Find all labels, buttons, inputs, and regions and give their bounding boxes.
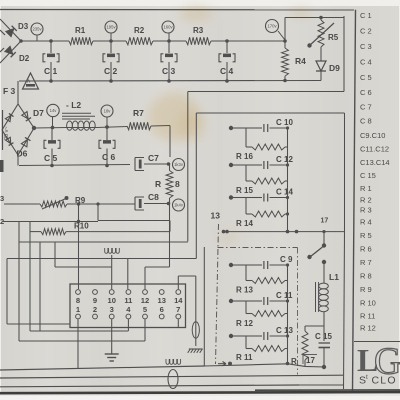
svg-text:1k4v: 1k4v (174, 203, 184, 208)
wire: bundle x55 connects pin10 column (55, 242, 112, 267)
wire: lower chain right bus (286, 265, 290, 365)
wire: middle ground rail (19, 165, 130, 166)
capacitor C4 (219, 39, 235, 83)
svg-text:- L2: - L2 (66, 100, 81, 110)
warning triangle / fuse symbol (23, 73, 39, 89)
wire: top rail (21, 40, 285, 42)
svg-text:17: 17 (306, 356, 315, 365)
svg-text:R 15: R 15 (236, 186, 253, 195)
diode D7 (22, 108, 44, 121)
svg-text:R 10: R 10 (360, 299, 376, 308)
svg-text:C 6: C 6 (102, 152, 116, 162)
resistor R4 (282, 48, 307, 76)
svg-text:10: 10 (107, 296, 115, 305)
svg-text:C11.C12: C11.C12 (360, 145, 389, 154)
svg-text:C 15: C 15 (315, 332, 332, 341)
test point 235v (31, 23, 43, 41)
svg-text:C 11: C 11 (276, 291, 293, 300)
wire: node to R5/D9 branch (283, 16, 344, 92)
wire: bundle x19 to pin5 (19, 222, 145, 342)
wire: bridge2 output rail (32, 126, 67, 130)
svg-text:C7: C7 (148, 153, 159, 163)
svg-text:C 2: C 2 (104, 66, 118, 76)
logo LG (357, 341, 400, 383)
wire: pin12 route (145, 267, 170, 289)
svg-text:S: S (359, 375, 366, 387)
capacitor C11 / resistor R12 pair (229, 291, 293, 328)
capacitor C7 (135, 153, 168, 171)
wire: top section lower rail (19, 80, 321, 83)
uuu marks above bottom oval (166, 359, 181, 364)
svg-text:R 12: R 12 (236, 319, 253, 328)
wire: R9 to C8 node (67, 204, 170, 221)
svg-text:R4: R4 (295, 56, 306, 66)
switch wafer dash-dot boundary (216, 224, 298, 375)
wire: x169 column (169, 198, 171, 267)
wire: bundle x30 to pin4 (30, 222, 128, 332)
svg-text:14v: 14v (50, 108, 58, 113)
wire: pin3 to earth ground (111, 319, 113, 348)
capacitor C8 (135, 192, 168, 210)
svg-text:C 10: C 10 (276, 118, 293, 127)
svg-text:2: 2 (93, 305, 97, 314)
diode bridge2 left diodes (5, 113, 13, 145)
svg-text:R 2: R 2 (360, 196, 372, 205)
wire: pin14 route (178, 276, 196, 346)
svg-text:8: 8 (175, 179, 180, 189)
trimmer R9 (40, 196, 86, 209)
wire: pin1 down to bottom rail (77, 319, 79, 369)
capacitor C3 (161, 41, 177, 83)
capacitor C14 / resistor R14 pair (229, 188, 294, 229)
capacitor C9 / resistor R13 pair (229, 255, 293, 295)
svg-text:C 14: C 14 (276, 188, 293, 197)
svg-text:9: 9 (93, 296, 97, 305)
node 13 wire (211, 211, 346, 234)
wire: L2 to C6 node (97, 125, 127, 129)
svg-text:C 4: C 4 (360, 58, 372, 67)
resistor R7 (127, 108, 151, 130)
wire: switch section ground rail (205, 364, 326, 367)
svg-text:CLO: CLO (372, 375, 397, 387)
svg-text:C 3: C 3 (162, 66, 176, 76)
svg-text:R 14: R 14 (236, 219, 253, 228)
wire: horizontal y91 (188, 91, 344, 93)
resistor R17 (291, 326, 324, 367)
potentiometer R5 (307, 18, 338, 48)
svg-text:160v: 160v (163, 25, 173, 30)
svg-text:13: 13 (157, 296, 165, 305)
resistor R3 (186, 26, 211, 45)
chassis ground below pin14 route (188, 349, 203, 353)
svg-text:R7: R7 (133, 108, 144, 118)
svg-text:D9: D9 (329, 63, 340, 73)
logo text St CLO (359, 374, 397, 387)
svg-text:R 1: R 1 (360, 184, 372, 193)
wire: long vertical x188 (187, 92, 189, 242)
svg-text:F 3: F 3 (3, 86, 16, 96)
svg-text:L1: L1 (329, 272, 339, 282)
svg-text:R 8: R 8 (360, 272, 372, 281)
capacitor C1 (43, 39, 59, 83)
wire: horizontal y113 (196, 112, 344, 114)
connector block outline (70, 284, 186, 328)
parts list column (360, 11, 390, 333)
svg-text:R3: R3 (193, 26, 204, 35)
node: bridge1 output (19, 39, 23, 43)
test point 14v (47, 104, 59, 129)
resistor R1 (69, 26, 93, 45)
rotary switch S1 (307, 230, 326, 264)
earth ground (105, 348, 119, 361)
svg-text:C 5: C 5 (44, 153, 58, 163)
svg-text:C 4: C 4 (220, 66, 234, 76)
wire: bottom bus 2 (0, 375, 343, 378)
svg-text:C 9: C 9 (280, 255, 293, 264)
wire: R7 to C7 node (151, 126, 170, 158)
svg-text:20 v~: 20 v~ (4, 126, 10, 140)
bottom connector oval (168, 370, 178, 389)
diode bridge rectifier arm D2 (0, 41, 30, 63)
zener diode D9 (316, 47, 340, 81)
label F3 (3, 86, 16, 96)
capacitor C15 (315, 332, 332, 367)
inductor L2 (62, 100, 97, 130)
wire: bridge2 bottom to ground rail (17, 155, 19, 166)
wire: C8 left lead (96, 202, 135, 205)
connector pins bottom row 1-7 (76, 305, 181, 319)
test point 1k3v (167, 159, 185, 171)
svg-text:8: 8 (76, 296, 80, 305)
resistor R10 (41, 222, 89, 235)
capacitor C6 (99, 127, 116, 167)
label 17 at switch (321, 218, 329, 225)
svg-text:R 4: R 4 (360, 218, 372, 227)
svg-text:R1: R1 (75, 26, 86, 35)
inductor L1 (316, 264, 340, 312)
wire: vertical x196 (195, 113, 197, 259)
terminal 2 (0, 217, 98, 226)
svg-text:18v: 18v (104, 109, 112, 114)
test point 1k4v (167, 199, 185, 211)
wire: bundle y242 horizontal (19, 241, 188, 243)
test point 160v (162, 21, 174, 43)
svg-text:R 11: R 11 (236, 353, 253, 362)
wire: upper chain right bus (286, 128, 289, 232)
svg-text:R 9: R 9 (360, 285, 372, 294)
wire: bundle left vertical x7 (7, 259, 70, 325)
resistor R2 (126, 26, 153, 45)
node: C15 bottom (322, 365, 326, 369)
wire: x344 down to switch box (299, 232, 345, 389)
svg-text:13: 13 (211, 211, 221, 221)
svg-text:R 7: R 7 (360, 258, 372, 267)
svg-text:R 16: R 16 (236, 152, 253, 161)
svg-text:C 8: C 8 (360, 117, 372, 126)
svg-text:195v: 195v (106, 25, 116, 30)
connector pins top row 8-14 (76, 290, 184, 306)
test point 195v (105, 21, 117, 43)
resistor R8 (155, 164, 180, 198)
svg-text:170v: 170v (267, 24, 277, 29)
svg-text:R5: R5 (328, 33, 339, 42)
wire: L1 bottom (323, 312, 325, 341)
svg-text:6: 6 (160, 305, 164, 314)
wire: bundle vertical x40 (39, 242, 41, 331)
svg-text:C 1: C 1 (44, 66, 58, 76)
svg-text:C8: C8 (148, 192, 159, 202)
svg-text:C 3: C 3 (360, 42, 372, 51)
test point 18v (101, 105, 113, 129)
capacitor C5 (44, 128, 60, 168)
svg-text:235v: 235v (32, 27, 42, 32)
svg-text:R 13: R 13 (236, 286, 253, 295)
svg-text:C 2: C 2 (360, 27, 372, 36)
svg-text:3: 3 (110, 305, 114, 314)
svg-text:R 12: R 12 (360, 324, 376, 333)
svg-text:14: 14 (174, 296, 183, 305)
svg-text:R: R (155, 179, 161, 189)
svg-text:R 6: R 6 (360, 245, 372, 254)
svg-text:12: 12 (141, 296, 149, 305)
terminal 3 (0, 194, 40, 204)
diode bridge rectifier arm D3 (0, 19, 29, 41)
capacitor C10 / resistor R16 pair (229, 118, 294, 161)
svg-text:C 1: C 1 (360, 11, 372, 20)
wire: bottom bus 3 (0, 385, 299, 387)
wire: R10 leads (30, 221, 170, 232)
svg-text:C 13: C 13 (276, 326, 293, 335)
svg-text:R 3: R 3 (360, 206, 372, 215)
wire: bundle horizontal y258 (7, 258, 128, 260)
svg-text:11: 11 (124, 296, 133, 305)
svg-text:R 5: R 5 (360, 231, 372, 240)
svg-text:C9.C10: C9.C10 (360, 131, 385, 140)
capacitor C2 (103, 41, 119, 83)
svg-text:3: 3 (0, 194, 4, 203)
wire: long vertical x344 (344, 113, 346, 232)
wire: pin8 up to node on R9 wire (77, 202, 80, 289)
wire: R4 bottom (283, 76, 287, 82)
svg-text:R 11: R 11 (360, 312, 375, 321)
svg-text:R10: R10 (74, 222, 89, 231)
arrow: ground rail (218, 362, 232, 366)
svg-text:17: 17 (321, 218, 329, 225)
wire: pin11 route (128, 259, 197, 290)
wire: pin10 top with uuu (105, 248, 120, 289)
svg-text:R2: R2 (134, 26, 145, 35)
svg-text:R9: R9 (75, 196, 86, 205)
svg-text:D7: D7 (33, 108, 44, 118)
svg-text:t: t (366, 374, 368, 381)
test point 170v (266, 20, 286, 41)
svg-text:7: 7 (176, 305, 180, 314)
wire: vertical to ground rail x204 (203, 247, 205, 366)
svg-text:C 5: C 5 (360, 73, 372, 82)
svg-text:C13.C14: C13.C14 (360, 158, 390, 167)
wire: bridge2 top to upper rail (17, 81, 19, 104)
AC input 20V (3, 110, 11, 150)
diode D6 (17, 137, 31, 158)
bridge 1 left stub (0, 30, 5, 52)
capacitor C13 / resistor R11 pair (229, 326, 294, 362)
svg-text:C 12: C 12 (276, 155, 293, 164)
wire: bottom bus 1 (0, 366, 205, 370)
svg-text:C 7: C 7 (360, 103, 372, 112)
left edge mark (0, 160, 4, 172)
svg-text:C 15: C 15 (360, 171, 376, 180)
svg-text:C 6: C 6 (360, 88, 372, 97)
svg-text:D3: D3 (18, 22, 29, 31)
svg-text:D2: D2 (19, 54, 30, 63)
diode bridge rectifier 2 outline (2, 104, 34, 155)
connector bead oval (192, 322, 199, 338)
capacitor C12 / resistor R15 pair (229, 155, 294, 195)
wire: pin7 stub (177, 319, 179, 327)
svg-text:1k3v: 1k3v (174, 162, 184, 167)
